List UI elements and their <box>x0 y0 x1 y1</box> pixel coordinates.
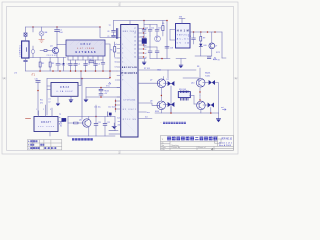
capacitor C9 bars <box>112 35 116 36</box>
wire mid link rail <box>144 46 157 48</box>
svg-text:C3: C3 <box>67 64 69 66</box>
ground G2 triangle <box>112 127 116 129</box>
MCU right pin stubs <box>138 29 144 58</box>
wire Q1 base <box>47 50 54 52</box>
fuse F1 cross <box>24 33 27 36</box>
border frame inner <box>7 7 234 151</box>
junction bus3 b <box>109 77 111 79</box>
revision table vline3 <box>43 140 45 150</box>
optocoupler U7 wires <box>211 32 213 56</box>
transistor Q10 internals <box>199 79 203 87</box>
revision table hline1 <box>27 142 61 144</box>
transistor Q8 internals <box>160 101 164 109</box>
svg-text:T2: T2 <box>59 114 61 116</box>
svg-text:3: 3 <box>122 53 123 55</box>
junction top rail 1 <box>32 26 34 28</box>
svg-text:5: 5 <box>122 62 123 64</box>
revision table outline <box>27 140 61 150</box>
wire MCU pin y118.5 seg <box>138 118 152 120</box>
diac D3 <box>168 102 175 107</box>
U5 pin labels <box>36 109 51 111</box>
transistor Q1 internals <box>54 48 57 54</box>
diode D1 bar <box>63 64 65 66</box>
title block divider col4 <box>217 136 219 147</box>
svg-text:12: 12 <box>134 49 136 51</box>
title block line row3 <box>161 145 234 147</box>
wire CX to ground bus <box>25 62 27 71</box>
resistor R2 wires <box>39 58 41 72</box>
U3 left pin wires <box>170 30 176 41</box>
junction U6a <box>199 91 200 92</box>
capacitor C15 bars <box>155 30 159 32</box>
svg-text:D2: D2 <box>167 79 169 81</box>
wire x170 vert <box>169 30 171 41</box>
wire base Q7 <box>138 82 160 84</box>
junction top rail 3 <box>99 26 101 28</box>
wire Q10 base <box>183 78 199 80</box>
svg-text:os: os <box>115 80 117 82</box>
title text main <box>167 137 217 141</box>
svg-text:Q8: Q8 <box>150 101 152 103</box>
svg-text:0.47 #586B: 0.47 #586B <box>77 48 95 50</box>
svg-text:C19: C19 <box>188 36 191 38</box>
junction left pin bus c <box>115 108 116 109</box>
wire Q8 collector right <box>163 104 167 106</box>
svg-text:11: 11 <box>134 53 136 55</box>
wire C17 <box>156 47 158 59</box>
transistor Q7 <box>157 79 166 88</box>
U4 bottom pin2 wire <box>70 96 72 99</box>
ground G5 <box>142 62 146 65</box>
revision table hline2 <box>27 145 61 147</box>
wire left pin bus x115 <box>116 99 121 112</box>
junction ground bus 3 <box>59 70 61 72</box>
resistor R5 <box>114 47 116 53</box>
wire pin bus under U1 <box>68 59 103 61</box>
svg-text:1: 1 <box>122 44 123 46</box>
revision table text r2c2 <box>40 144 42 146</box>
optocoupler U7 <box>209 43 215 49</box>
svg-text:b5: b5 <box>115 58 117 60</box>
ground bus wire <box>26 70 118 72</box>
fuse F1 <box>24 33 27 36</box>
svg-text:R7 103: R7 103 <box>144 68 150 70</box>
border frame outer <box>2 2 238 154</box>
resistor R4 <box>89 61 94 63</box>
resistor network U6 pins top <box>181 91 189 93</box>
svg-text:15: 15 <box>134 37 136 39</box>
svg-text:C5: C5 <box>88 64 90 66</box>
title block line row4 <box>161 147 234 149</box>
capacitor C3 wires <box>70 60 72 71</box>
MCU U2 hatch <box>122 26 136 133</box>
wire x167 vert <box>166 21 168 59</box>
MCU bottom left ground wire <box>109 130 118 132</box>
junction rail y58.5 <box>161 58 163 60</box>
title block line row2 <box>161 143 171 145</box>
transistor Q11 internals <box>85 119 89 127</box>
title block divider col3 <box>213 146 215 150</box>
wire mid rail <box>30 57 66 59</box>
wire left vert x47 <box>46 79 48 116</box>
svg-text:R4: R4 <box>89 59 91 61</box>
wire R9 <box>200 32 202 44</box>
svg-text:1: 1 <box>36 109 37 111</box>
svg-text:Q10: Q10 <box>191 83 194 85</box>
osc loop bottom wire <box>68 135 115 137</box>
svg-text:b0: b0 <box>145 45 147 47</box>
wire G6 drop <box>180 59 182 66</box>
svg-text:Sheet of: Sheet of <box>198 146 206 149</box>
module U4 <box>51 83 78 97</box>
revision table text r1c2 <box>34 140 36 142</box>
svg-text:DB3#: DB3# <box>81 42 92 46</box>
svg-text:DB3#: DB3# <box>60 86 70 89</box>
regulator U3 <box>176 24 191 49</box>
title block divider col1 <box>169 141 171 150</box>
MCU right pin labels <box>145 28 147 59</box>
svg-text:T2: T2 <box>109 25 111 27</box>
transistor Q1 <box>52 47 58 53</box>
wire top rail <box>26 26 101 28</box>
svg-text:C10: C10 <box>35 79 38 81</box>
resistor R3 wires <box>49 58 51 72</box>
wire Q9 base <box>190 95 195 97</box>
svg-text:13: 13 <box>134 45 136 47</box>
svg-text:b2: b2 <box>145 53 147 55</box>
transistor Q6 <box>155 36 161 42</box>
wire CN1 top to fuse <box>25 36 27 41</box>
MCU bottom stub2 <box>109 133 121 135</box>
svg-text:vss: vss <box>118 121 121 123</box>
U1 pin wires bottom <box>68 56 103 60</box>
title block small box <box>215 139 222 143</box>
wire out right vert <box>221 32 223 58</box>
wire drop x168 <box>167 70 169 78</box>
revision table vline1 <box>31 140 33 150</box>
transistor Q9 <box>197 101 206 110</box>
zone tick left <box>2 77 7 79</box>
capacitor C10 bars <box>36 81 40 83</box>
U4 bottom pin1 wire <box>57 96 59 100</box>
capacitor C17 bars <box>155 51 159 53</box>
transformer T2 core bars <box>117 29 118 39</box>
varistor RV1 <box>31 50 35 54</box>
capacitor C13 bars <box>142 30 146 32</box>
wire Q9 base link <box>194 103 200 105</box>
svg-text:mclr: mclr <box>117 118 120 120</box>
svg-text:8550: 8550 <box>155 111 159 113</box>
module U5 <box>34 117 58 132</box>
capacitor C14 wires <box>149 25 151 37</box>
svg-text:A: A <box>3 77 5 81</box>
svg-text:C4: C4 <box>78 64 80 66</box>
svg-text:AB12DV4B: AB12DV4B <box>122 66 137 69</box>
wire D2 down <box>170 86 172 113</box>
wire D3 down <box>170 107 172 113</box>
capacitor C2 bars <box>56 64 60 66</box>
wire Q7 collector right <box>164 82 168 84</box>
resistor network U6 body <box>178 92 190 98</box>
svg-text:buz: buz <box>147 112 150 114</box>
capacitor C19 bars <box>192 38 196 40</box>
wire crystal links <box>144 36 157 47</box>
svg-text:C21: C21 <box>98 122 101 124</box>
svg-text:C18: C18 <box>170 47 173 49</box>
connector CN1 key notch <box>25 48 27 52</box>
diode D1 wires <box>63 58 65 72</box>
svg-text:C13: C13 <box>145 28 148 30</box>
transistor Q8 <box>157 101 166 110</box>
svg-text:Y1: Y1 <box>141 37 143 39</box>
svg-text:R9: R9 <box>203 37 205 39</box>
resistor network U6 pins bottom <box>181 98 189 100</box>
wire right link y58 <box>222 57 226 59</box>
capacitor C4 bars <box>74 64 78 65</box>
svg-text:Rev A 2003: Rev A 2003 <box>219 144 232 147</box>
svg-text:2: 2 <box>122 48 123 50</box>
svg-text:VER NO.10: VER NO.10 <box>221 139 233 141</box>
MCU left pin labels <box>115 44 117 81</box>
wire R10 left <box>68 122 74 124</box>
diode D1 <box>63 63 65 65</box>
svg-text:in: in <box>59 117 60 119</box>
capacitor C5 wires <box>85 60 87 71</box>
zone tick right <box>234 77 239 79</box>
wire MCU pin y112 <box>138 111 146 113</box>
wire CN1 bottom <box>25 58 27 60</box>
junction bus3 a <box>81 78 83 80</box>
svg-text:HA1M: HA1M <box>177 30 189 33</box>
LED D6 bar <box>199 46 202 48</box>
wire U4 pin1 down <box>57 100 59 103</box>
capacitor C14 bars <box>148 30 152 32</box>
svg-text:Drawn By: Drawn By <box>172 147 181 149</box>
svg-text:C12 104: C12 104 <box>108 107 115 109</box>
wire C16 <box>149 47 151 59</box>
wire q9 base drop <box>193 96 195 105</box>
svg-text:10: 10 <box>134 57 136 59</box>
wire base Q8 <box>138 103 160 105</box>
svg-text:b7: b7 <box>115 67 117 69</box>
junction ground bus 1 <box>39 70 41 72</box>
svg-text:2: 2 <box>43 109 44 111</box>
U5 top pin3 <box>51 108 53 117</box>
junction top pin rail <box>143 20 145 22</box>
wire bus3 <box>47 78 110 80</box>
svg-text:C8: C8 <box>107 31 109 33</box>
earth ground E1 <box>39 40 44 43</box>
svg-text:14: 14 <box>134 41 136 43</box>
svg-text:b6: b6 <box>115 62 117 64</box>
optocoupler U7 internals <box>211 43 214 48</box>
U4 pin label cluster <box>48 99 50 104</box>
osc loop left wire <box>67 117 69 137</box>
junction x167 top <box>166 20 168 22</box>
capacitor C3 bars <box>69 64 73 65</box>
svg-text:C9: C9 <box>107 36 109 38</box>
capacitor C2 wires <box>57 58 59 72</box>
wire osc to mcu <box>109 130 115 132</box>
wire C1 to U1 <box>57 44 66 46</box>
wire lamp to earth <box>41 36 43 39</box>
U5 top pin1 <box>38 111 40 117</box>
svg-text:a1: a1 <box>145 33 147 35</box>
capacitor C11 bars <box>99 89 103 91</box>
junction out2 <box>200 31 202 33</box>
wire R6 <box>162 21 164 37</box>
MCU U2 left pin numbers <box>122 44 123 81</box>
junction emitter chain <box>161 95 162 96</box>
wire caps C8 C9 <box>113 21 115 38</box>
resistor R5 wires <box>114 42 116 57</box>
wire fuse to top rail <box>25 27 27 33</box>
revision table text r3c2 <box>34 147 36 149</box>
svg-text:xxx xxxx: xxx xxxx <box>38 126 54 128</box>
svg-text:C6: C6 <box>98 64 100 66</box>
svg-text:C11 10u: C11 10u <box>94 107 101 109</box>
wire G5 drop <box>143 59 145 63</box>
junction U1 right <box>109 70 111 72</box>
wire left drop mid rail <box>32 27 34 32</box>
svg-text:BZ1: BZ1 <box>59 124 62 126</box>
svg-text:Q11: Q11 <box>79 120 82 122</box>
wire D4 down <box>210 108 212 114</box>
svg-text:R8: R8 <box>197 66 199 68</box>
U5 right labels <box>60 122 62 128</box>
wire Q10 to D5 <box>203 82 209 84</box>
svg-text:8: 8 <box>122 75 123 77</box>
wire rail to ground <box>218 113 220 119</box>
junction U6b <box>199 99 200 100</box>
junction bus C4 <box>75 70 77 72</box>
U3 top pin <box>181 19 183 24</box>
svg-text:vdd: vdd <box>117 125 120 127</box>
junction bus C5 <box>85 70 87 72</box>
ground G2 wire <box>113 123 115 126</box>
junction ground bus 2 <box>52 70 54 72</box>
svg-text:A: A <box>235 77 237 81</box>
svg-text:U7: U7 <box>215 46 217 48</box>
wire bottom rail y113 <box>155 112 219 114</box>
wire y58.5 left seg <box>138 58 146 60</box>
capacitor C16 bars <box>148 51 152 53</box>
svg-text:K2: K2 <box>60 126 62 128</box>
diac D5 <box>209 80 215 85</box>
svg-text:3: 3 <box>50 109 51 111</box>
transistor Q9 internals <box>199 102 203 110</box>
junction U4 right <box>80 70 82 72</box>
capacitor labels cluster <box>145 28 161 30</box>
wire top drop x100 <box>100 27 121 38</box>
wire reg bottom <box>86 96 121 98</box>
varistor RV1 wire <box>32 46 34 58</box>
svg-text:*: * <box>161 123 162 125</box>
power arrow <box>109 82 111 84</box>
wire C10 down <box>37 82 39 115</box>
ground G3 <box>69 100 73 103</box>
svg-text:b4: b4 <box>115 44 117 46</box>
svg-text:17: 17 <box>134 28 136 30</box>
junction rail D4 <box>210 112 212 114</box>
junction out4 <box>214 31 216 33</box>
svg-text:471: 471 <box>40 102 43 104</box>
svg-text:MB1 20V4: MB1 20V4 <box>123 31 136 33</box>
wire long mid y70 <box>138 69 196 71</box>
MCU left pin stubs <box>117 45 121 98</box>
wire U3 right output <box>190 31 222 33</box>
capacitor C6 wires <box>95 60 97 71</box>
U3 top pin tick <box>179 18 185 20</box>
wire U5 to net <box>58 121 64 123</box>
svg-text:RN1 103: RN1 103 <box>179 89 186 91</box>
ground G7 <box>216 119 220 122</box>
zone tick top <box>119 2 121 7</box>
svg-text:in1: in1 <box>48 99 50 101</box>
U5 bottom pin wire <box>49 132 51 137</box>
revision table vline2 <box>39 140 41 150</box>
wire R1 left <box>40 50 44 52</box>
revision table vline4 <box>50 140 52 150</box>
wire C11 C12 <box>100 88 102 98</box>
transistor Q6 internals <box>156 36 159 41</box>
capacitor C22 wires <box>104 117 106 137</box>
wire D5 right <box>215 83 219 114</box>
ground G2 bar <box>112 125 116 127</box>
junction rail D2 <box>170 112 172 114</box>
svg-text:led: led <box>145 117 147 119</box>
power module U1 <box>66 40 105 56</box>
U4 right pin wire <box>78 71 81 86</box>
ground G6 <box>179 65 183 68</box>
svg-text:16: 16 <box>134 33 136 35</box>
wire x97 from above <box>95 105 97 117</box>
wire indicator rail <box>195 55 212 57</box>
capacitor CX bars <box>24 60 28 61</box>
svg-text:Q7: Q7 <box>150 80 152 82</box>
capacitor C19 wires <box>193 32 195 44</box>
diac D2 <box>168 81 175 86</box>
capacitor C21 bars <box>94 124 98 126</box>
MCU U2 <box>121 25 138 138</box>
LED D6 <box>199 44 202 47</box>
junction left pin bus b <box>115 104 116 105</box>
svg-text:CY17C054: CY17C054 <box>123 100 136 102</box>
wire c13 c14 top link <box>144 24 157 26</box>
note text line <box>163 122 186 124</box>
svg-text:2SC945: 2SC945 <box>47 55 58 57</box>
power arrow out <box>214 57 217 59</box>
polar capacitor C23 wire <box>109 115 111 116</box>
osc loop right wire <box>114 117 116 131</box>
wire Q1 emitter down <box>56 53 58 57</box>
neon lamp NE1 electrodes <box>40 32 43 34</box>
svg-text:C14: C14 <box>151 28 154 30</box>
capacitor C15 wires <box>156 25 158 37</box>
svg-text:KA431: KA431 <box>205 72 210 75</box>
resistor R9 <box>200 37 202 42</box>
wire reg top <box>86 87 121 89</box>
junction out1 <box>193 31 195 33</box>
transistor Q11 wires <box>78 117 89 137</box>
svg-text:C22: C22 <box>107 122 110 124</box>
capacitor C18 bars <box>165 47 169 49</box>
resistor R10 <box>74 122 79 124</box>
diac D4 <box>208 103 214 108</box>
transistor Q10 <box>196 79 205 88</box>
svg-text:R6: R6 <box>162 23 164 25</box>
label out arrow2 <box>223 109 227 111</box>
